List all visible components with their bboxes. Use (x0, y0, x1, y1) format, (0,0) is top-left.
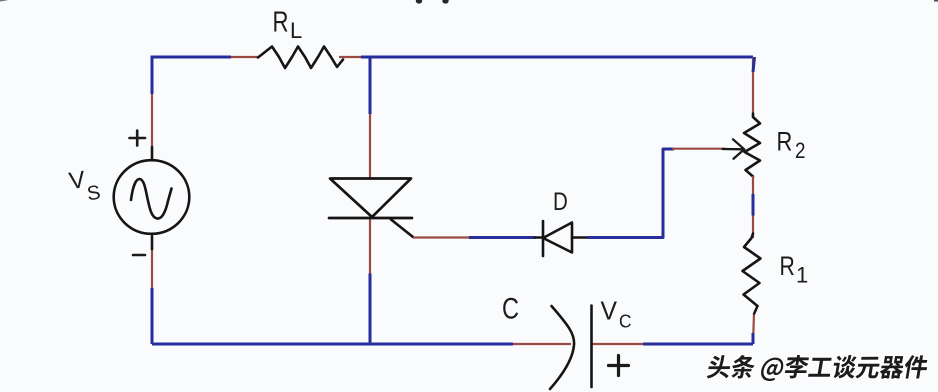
svg-text:C: C (502, 293, 519, 326)
voltage source VS (114, 147, 190, 249)
wire: middle vertical lower blue overlay (369, 274, 372, 345)
polarity − of source (133, 254, 145, 257)
wire: bottom horizontal right blue overlay (643, 343, 753, 346)
wire: left vertical (red under-layer) (151, 57, 153, 146)
wire: bottom horizontal right (red under-layer) (591, 343, 753, 345)
polarity + of source (130, 131, 146, 146)
capacitor C (550, 306, 592, 390)
wire: bottom horizontal left (red under-layer) (152, 343, 571, 345)
wire: top horizontal blue overlay right (361, 56, 753, 59)
svg-text:C: C (619, 312, 632, 332)
wire: bottom-right corner blue overlay (752, 333, 755, 344)
wire: middle vertical upper (red under-layer) (369, 57, 371, 178)
watermark 头条@李工谈元器件 (drawn as vector paths) (707, 355, 928, 381)
wire: top horizontal blue overlay left (151, 56, 232, 59)
resistor RL (258, 47, 343, 69)
svg-text:D: D (553, 188, 568, 216)
resistor R2 (potentiometer element) (744, 114, 760, 177)
potentiometer R2 wiper arrowhead (723, 139, 745, 159)
title remnant dots (cropped text descenders) (0, 0, 938, 4)
SCR (thyristor) (329, 179, 413, 238)
wire: R1 to bottom-right corner (red under-layer) (753, 313, 754, 344)
svg-text:V: V (601, 296, 618, 326)
svg-text:1: 1 (796, 263, 808, 288)
polarity + at capacitor (609, 356, 629, 376)
wire: top horizontal right of RL (red under-layer) (339, 56, 753, 58)
svg-text:L: L (290, 18, 302, 43)
resistor R1 bottom lead (754, 306, 757, 314)
diode D (535, 221, 588, 256)
wire: gate horizontal to diode (red under-layer) (413, 236, 525, 238)
resistor R1 (743, 234, 761, 307)
wire: right vertical top blue overlay (753, 57, 755, 72)
svg-text:R: R (273, 7, 289, 39)
wire: between R2 and R1 blue overlay (752, 194, 755, 216)
wire: left vertical blue overlay top (151, 56, 154, 94)
wire: gate horizontal blue overlay (469, 236, 536, 239)
wire: left vertical blue overlay bottom (151, 288, 154, 344)
svg-text:R: R (780, 251, 795, 281)
wire: left vertical lower (red under-layer) (151, 248, 153, 344)
wire: wiper horizontal (red) (672, 148, 726, 150)
svg-text:2: 2 (795, 138, 806, 163)
wire: middle vertical lower (red under-layer) (369, 218, 371, 344)
wire: top horizontal (red under-layer) (152, 56, 259, 58)
wire: right vertical top (red under-layer) (752, 57, 754, 118)
wire: bottom horizontal left blue overlay (152, 343, 513, 346)
wire: middle vertical upper blue overlay (369, 57, 372, 114)
wire: diode to R2 wiper (blue) (588, 149, 675, 238)
wire: between R2 and R1 (red under-layer) (752, 176, 754, 238)
svg-text:R: R (777, 127, 793, 157)
